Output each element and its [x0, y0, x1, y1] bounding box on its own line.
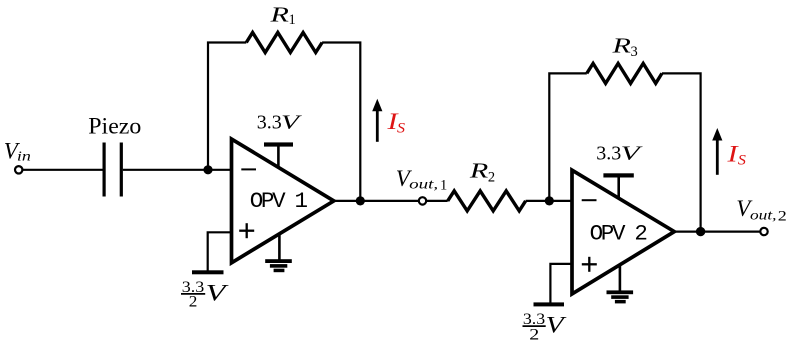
svg-text:2: 2 [488, 169, 495, 185]
svg-text:2: 2 [529, 327, 539, 344]
svg-text:OPV 1: OPV 1 [250, 188, 308, 214]
svg-text:in: in [17, 149, 31, 164]
svg-text:R: R [611, 34, 631, 58]
svg-text:3.3: 3.3 [257, 111, 282, 133]
svg-text:1: 1 [289, 12, 296, 28]
svg-text:3: 3 [631, 44, 638, 60]
svg-text:OPV 2: OPV 2 [590, 221, 647, 247]
svg-text:R: R [269, 2, 289, 26]
svg-text:out,: out, [409, 178, 438, 193]
svg-text:R: R [468, 159, 488, 183]
svg-text:S: S [397, 121, 406, 137]
svg-text:out,: out, [750, 208, 777, 223]
svg-text:2: 2 [189, 294, 198, 311]
svg-text:S: S [738, 153, 747, 169]
svg-text:Piezo: Piezo [88, 114, 141, 140]
svg-text:2: 2 [778, 208, 787, 224]
svg-text:1: 1 [440, 177, 447, 193]
svg-text:3.3: 3.3 [596, 142, 621, 164]
